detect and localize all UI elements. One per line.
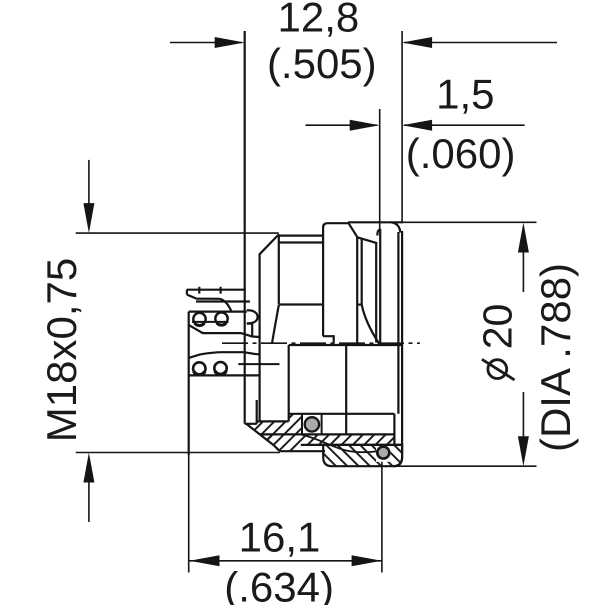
tongue left line bbox=[375, 243, 377, 342]
upper contact hole 1 bbox=[193, 313, 205, 325]
upper contact pin line bbox=[187, 287, 280, 376]
body top double line 1 bbox=[279, 235, 323, 237]
svg-text:(.634): (.634) bbox=[224, 564, 334, 605]
dimension 12,8 label bbox=[267, 0, 377, 87]
bottom chamfer bbox=[246, 424, 274, 445]
groove right wall lower bbox=[393, 414, 395, 445]
lower body rect left bbox=[288, 345, 290, 421]
back collar front edge bbox=[397, 232, 399, 414]
coupling ring right edge bbox=[356, 237, 358, 345]
upper block bottom wavy bbox=[189, 325, 260, 337]
o-ring 2 bbox=[377, 447, 389, 459]
arrow 12,8 left bbox=[215, 37, 245, 48]
o-ring 1 groove right wall bbox=[321, 414, 323, 435]
insulator bottom bbox=[257, 420, 289, 422]
diameter symbol bbox=[488, 360, 507, 379]
o-ring 1 groove left wall bbox=[301, 414, 303, 435]
svg-text:(.505): (.505) bbox=[267, 40, 377, 87]
groove arc bbox=[362, 305, 379, 344]
arrow dia20 bottom bbox=[518, 436, 529, 466]
dimension lines M18 bbox=[76, 160, 280, 522]
arrow 1,5 left bbox=[350, 120, 380, 131]
flag curve to block bbox=[220, 299, 232, 312]
arrow M18 bottom bbox=[83, 453, 94, 483]
left contact housing edge bbox=[188, 312, 190, 455]
o-ring 2 window bbox=[376, 446, 391, 462]
svg-text:(.060): (.060) bbox=[406, 130, 516, 177]
hatched bottom protrusion bbox=[323, 445, 402, 466]
upper hole 1 shadow bbox=[195, 323, 205, 325]
groove shoulder tick bbox=[357, 304, 362, 306]
strip line bbox=[301, 444, 402, 446]
svg-text:12,8: 12,8 bbox=[278, 0, 360, 41]
main cylinder top edge bbox=[348, 221, 403, 223]
bore shoulder line bbox=[279, 303, 323, 305]
main outlines bbox=[189, 31, 403, 466]
svg-text:M18x0,75: M18x0,75 bbox=[38, 258, 85, 442]
second pin line bbox=[196, 300, 250, 302]
svg-text:20: 20 bbox=[475, 304, 521, 350]
front shell inner lip bbox=[256, 400, 258, 424]
pin tick 1 bbox=[198, 287, 200, 294]
svg-text:16,1: 16,1 bbox=[239, 513, 321, 560]
arrow 16,1 left bbox=[190, 555, 220, 566]
dimension lines 16,1 bbox=[189, 455, 382, 573]
back edge bbox=[393, 231, 402, 466]
upper block chord bbox=[192, 321, 229, 323]
upper block right tab bbox=[247, 310, 258, 323]
arrow 1,5 right bbox=[402, 120, 432, 131]
upper hole 2 shadow bbox=[217, 323, 227, 325]
lower contact hole 1 bbox=[193, 362, 205, 374]
arrow dia20 top bbox=[518, 223, 529, 253]
flag diagonal bbox=[187, 295, 220, 299]
o-ring 1 bbox=[305, 417, 319, 431]
dimension lines 12,8 bbox=[170, 31, 557, 222]
groove inner line bbox=[361, 238, 363, 304]
tongue cap and right line bbox=[377, 230, 380, 345]
svg-text:(DIA .788): (DIA .788) bbox=[532, 263, 579, 452]
lower body inner line bbox=[345, 345, 347, 434]
shell bore edge bbox=[278, 234, 280, 304]
lower hole 1 shadow bbox=[194, 371, 205, 374]
shell chamfer top-left bbox=[260, 234, 279, 254]
shell bore arc bbox=[272, 305, 279, 344]
coupling ring step bbox=[323, 336, 334, 343]
dimension lines dia 20 bbox=[389, 222, 537, 466]
center line bbox=[222, 342, 420, 344]
front sleeve face line bbox=[244, 31, 246, 424]
svg-text:1,5: 1,5 bbox=[436, 70, 494, 117]
top chamfer mid bbox=[348, 222, 357, 237]
arrow M18 top bbox=[83, 203, 94, 233]
cable gland S-curve bbox=[302, 435, 377, 452]
flag left edge bbox=[186, 290, 188, 295]
lower contact hole 2 bbox=[214, 362, 226, 374]
upper contact block top bbox=[189, 311, 247, 313]
band bottom line bbox=[260, 433, 395, 435]
lower block bottom bbox=[189, 374, 260, 376]
lower block top bbox=[189, 352, 260, 358]
front shell edge bbox=[259, 254, 261, 422]
dimension 1,5 label bbox=[406, 70, 516, 176]
upper contact hole 2 bbox=[215, 312, 227, 324]
hatched cross-section band bbox=[246, 414, 302, 445]
body top double line 2 bbox=[279, 241, 323, 243]
dimension lines 1,5 bbox=[306, 109, 525, 230]
bottom chamfer lower step bbox=[274, 445, 280, 451]
knurl groove floor slant bbox=[357, 237, 377, 243]
pin tick 2 bbox=[220, 287, 222, 294]
lower body rect top bbox=[289, 344, 402, 346]
arrow 12,8 right bbox=[402, 37, 432, 48]
arrow 16,1 right bbox=[352, 555, 382, 566]
upper block step bbox=[247, 324, 252, 337]
back collar chamfer bbox=[392, 222, 401, 232]
hatched thin strip below band bbox=[260, 434, 395, 451]
lip bottom line bbox=[280, 450, 325, 452]
coupling ring left edge bbox=[323, 223, 348, 336]
lower hole 2 shadow bbox=[215, 371, 226, 374]
dimension 16,1 label bbox=[224, 513, 334, 605]
lower pin line bbox=[238, 363, 279, 365]
lower body rect bottom bbox=[289, 413, 395, 415]
shell end face bbox=[245, 423, 257, 425]
o-ring 1 window bbox=[302, 415, 322, 434]
